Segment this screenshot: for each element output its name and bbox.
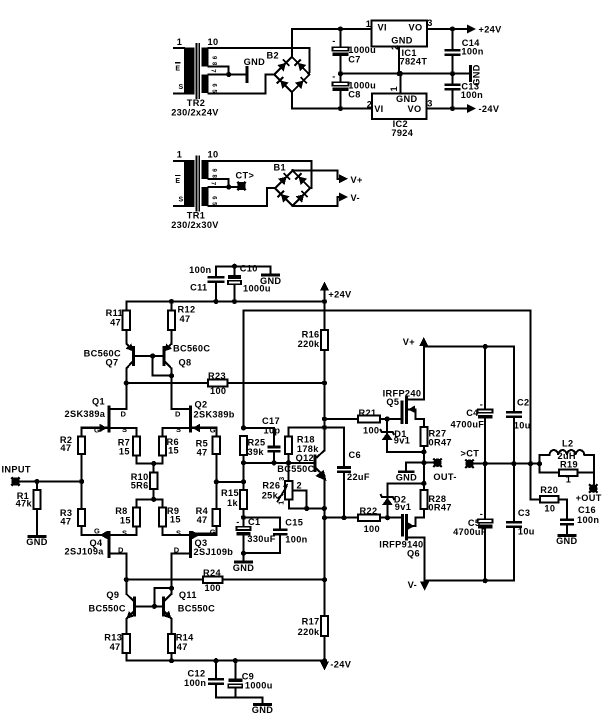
svg-text:100: 100 <box>364 524 380 534</box>
svg-text:R16: R16 <box>302 329 320 339</box>
junction R1 <box>34 479 39 484</box>
ground rail mid PSU <box>341 73 471 75</box>
wire Q4 drain down <box>125 554 127 580</box>
terminal CT <box>237 182 245 190</box>
svg-text:E: E <box>175 178 180 185</box>
bridge B1 diode upper-left <box>278 173 290 185</box>
wire output to OUT- terminal <box>424 462 433 464</box>
resistor R14 <box>168 634 175 653</box>
wire C6 bottom <box>325 473 345 517</box>
svg-text:47: 47 <box>197 448 208 458</box>
resistor R13 <box>123 634 130 653</box>
resistor R16 <box>321 330 328 350</box>
wire B2 - output to bottom rail <box>292 92 372 108</box>
resistor R15 <box>240 490 247 509</box>
svg-text:9: 9 <box>211 169 217 173</box>
svg-text:GND: GND <box>396 94 417 104</box>
transistor Q1 2SK389a <box>83 405 137 432</box>
inductor L2 <box>550 450 585 455</box>
svg-text:3: 3 <box>279 476 286 480</box>
wire R10 bottom <box>153 489 155 499</box>
svg-text:1: 1 <box>177 150 182 160</box>
svg-text:2SJ109a: 2SJ109a <box>65 547 105 557</box>
wire IC1 output to +24V <box>427 28 467 30</box>
wire Q8 collector to Q2 drain <box>171 383 173 409</box>
svg-text:15: 15 <box>119 447 130 457</box>
svg-text:9v1: 9v1 <box>394 435 410 445</box>
arrow V+ output <box>423 346 425 348</box>
wire output node to R28 <box>423 463 425 490</box>
svg-text:S: S <box>178 84 183 91</box>
wire R26 bottom <box>289 499 325 508</box>
svg-text:CT>: CT> <box>236 170 255 180</box>
wire lower mirror output row <box>126 579 324 581</box>
junction C13 bottom <box>450 106 455 111</box>
svg-text:BC550C: BC550C <box>89 604 126 614</box>
junction R26 to emitter line <box>322 506 327 511</box>
wire C16 bottom <box>566 526 568 536</box>
junction C1/C15 bottom <box>241 551 246 556</box>
svg-text:Q12: Q12 <box>296 453 314 463</box>
wire Q9/Q11 base tie <box>136 605 162 607</box>
svg-text:BC550C: BC550C <box>277 464 314 474</box>
wire R18 top lead <box>288 428 290 437</box>
wire CT line <box>474 463 540 465</box>
junction feedback/R20 <box>528 461 533 466</box>
capacitor C12 <box>208 678 224 681</box>
capacitor C7 <box>333 47 349 50</box>
svg-text:V-: V- <box>351 193 360 203</box>
junction C4 top <box>483 344 488 349</box>
feedback line top <box>244 311 531 464</box>
terminal +OUT <box>589 484 597 492</box>
junction D1 top <box>385 416 390 421</box>
trimmer R26 <box>285 481 292 499</box>
svg-text:+24V: +24V <box>479 25 503 35</box>
capacitor C17 <box>267 446 280 449</box>
ground GND C1 <box>236 561 252 564</box>
wire R17 bottom to -24V <box>324 636 326 661</box>
svg-text:10: 10 <box>208 37 219 47</box>
wire +24V to R16 <box>324 302 326 331</box>
transistor Q12 BC550C <box>315 451 331 484</box>
wire R18 bottom to Q12 base <box>288 454 290 481</box>
svg-text:R17: R17 <box>302 617 320 627</box>
transistor Q9 BC550C <box>126 594 134 619</box>
junction D1 anode to R27 line <box>421 449 426 454</box>
svg-text:C7: C7 <box>348 55 360 65</box>
junction R12 rail <box>169 299 174 304</box>
wire R17 top <box>324 580 326 616</box>
resistor R4 <box>213 509 220 526</box>
svg-text:C2: C2 <box>517 398 529 408</box>
svg-text:C16: C16 <box>578 505 596 515</box>
arrow +24V <box>467 25 476 34</box>
svg-text:-: - <box>332 72 335 82</box>
junction TR2 center tap <box>226 72 231 77</box>
terminal INPUT <box>11 477 19 485</box>
svg-text:GND: GND <box>556 536 577 546</box>
svg-text:VO: VO <box>409 23 423 33</box>
svg-text:47: 47 <box>60 443 71 453</box>
svg-text:100n: 100n <box>184 678 206 688</box>
svg-text:15: 15 <box>168 446 179 456</box>
svg-text:VI: VI <box>378 23 387 33</box>
wire emitter line to R22 node <box>323 508 325 579</box>
svg-text:15: 15 <box>120 515 131 525</box>
svg-text:R20: R20 <box>540 485 558 495</box>
svg-text:-: - <box>332 36 335 46</box>
junction C7/C8 midpoint <box>338 71 343 76</box>
svg-text:47: 47 <box>60 516 71 526</box>
svg-text:47: 47 <box>197 515 208 525</box>
wire R11 to rail <box>125 302 127 311</box>
svg-text:4700uF: 4700uF <box>451 419 485 429</box>
wire Q1 drain up <box>125 383 127 409</box>
wire R15 top <box>243 482 245 490</box>
wire R7/R6 bottoms <box>137 456 163 464</box>
transformer TR1 core <box>195 157 197 211</box>
svg-text:V+: V+ <box>351 175 363 185</box>
ground GND TR2 center tap <box>245 68 248 82</box>
resistor R25 <box>240 436 247 455</box>
svg-text:1: 1 <box>366 19 371 29</box>
wire GND stub output <box>406 463 424 472</box>
wire R25 bottom <box>243 455 245 482</box>
svg-text:7: 7 <box>210 182 216 186</box>
junction C1/C15 top <box>241 515 246 520</box>
wire C17 bottom <box>273 453 275 463</box>
junction C14 top <box>450 26 455 31</box>
wire feedback tap <box>216 481 243 483</box>
resistor R27 <box>420 427 427 446</box>
svg-text:R26: R26 <box>262 481 280 491</box>
svg-text:1k: 1k <box>227 498 238 508</box>
wire Q8 collector down <box>171 369 173 384</box>
wire R22 to Q6 gate <box>380 517 403 519</box>
negative rail bottom <box>126 653 324 661</box>
svg-text:C10: C10 <box>240 263 258 273</box>
svg-text:Q8: Q8 <box>179 357 192 367</box>
wire input <box>20 481 82 483</box>
wire Q12 collector <box>323 428 325 451</box>
svg-text:S: S <box>178 196 183 203</box>
svg-text:9v1: 9v1 <box>395 502 411 512</box>
wire TR2 pin5 to bridge B2 AC left <box>208 75 274 94</box>
arrow +24V rail <box>324 290 326 302</box>
svg-text:C11: C11 <box>190 282 207 292</box>
junction C10 top <box>232 264 237 269</box>
regulator IC1 box <box>371 20 427 46</box>
wire L2 left lead <box>540 455 550 464</box>
svg-text:INPUT: INPUT <box>2 464 31 474</box>
junction IC1 GND to rail <box>397 71 402 76</box>
junction C10 rail <box>232 299 237 304</box>
junction R10 top <box>151 461 156 466</box>
wire R5 to R4 <box>215 454 217 509</box>
wire Q5 source down <box>423 419 425 427</box>
svg-text:VO: VO <box>408 104 422 114</box>
junction C12 rail <box>213 658 218 663</box>
wire IC2 GND pin <box>399 74 401 94</box>
svg-text:Q5: Q5 <box>386 397 399 407</box>
wire to +OUT terminal <box>593 473 595 485</box>
capacitor C15 <box>273 528 287 531</box>
svg-text:1: 1 <box>389 86 399 91</box>
capacitor C3 <box>506 521 522 524</box>
svg-text:B1: B1 <box>274 162 286 172</box>
svg-text:S: S <box>122 529 127 538</box>
resistor R18 <box>285 437 292 454</box>
svg-text:2SJ109b: 2SJ109b <box>194 547 234 557</box>
wire C17 branch top <box>244 428 275 446</box>
svg-text:GND: GND <box>391 35 412 45</box>
wire TR1 pin7 to center tap <box>208 186 228 188</box>
zener diode D2 9v1 <box>386 483 388 517</box>
wire D2 top <box>387 482 424 484</box>
resistor R8 <box>133 508 140 527</box>
svg-text:D: D <box>175 410 181 419</box>
wire Q1 source to R7 <box>136 428 138 437</box>
svg-text:Q2: Q2 <box>195 399 208 409</box>
svg-text:2SK389a: 2SK389a <box>65 409 106 419</box>
junction R23 to VAS line <box>322 380 327 385</box>
junction D2 bottom <box>385 515 390 520</box>
svg-text:GND: GND <box>252 705 273 715</box>
svg-text:+24V: +24V <box>328 290 352 300</box>
ground GND PSU rail <box>469 67 472 81</box>
wire Q9 collector up <box>125 580 127 594</box>
svg-text:22uF: 22uF <box>347 472 370 482</box>
svg-text:G: G <box>94 527 100 536</box>
wire R12 to Q8 emitter <box>171 330 173 344</box>
wire R26 wiper <box>293 490 307 508</box>
resistor R6 <box>159 437 166 456</box>
svg-text:R24: R24 <box>203 568 221 578</box>
svg-text:2: 2 <box>367 100 372 110</box>
svg-text:-: - <box>480 399 483 409</box>
resistor R28 <box>420 490 427 509</box>
svg-text:2SK389b: 2SK389b <box>194 409 235 419</box>
wire R1 top <box>36 482 38 490</box>
junction R21 wire <box>322 416 327 421</box>
junction -24V rail <box>322 658 327 663</box>
svg-text:330uF: 330uF <box>247 534 275 544</box>
bridge B2 diode upper-left <box>277 59 289 71</box>
wire C15 branch top <box>244 518 281 529</box>
svg-text:3: 3 <box>427 98 432 108</box>
svg-text:4700uF: 4700uF <box>453 527 487 537</box>
wire R19 right lead <box>578 472 595 474</box>
wire R5 column top <box>191 428 217 437</box>
wire R2 to R3 <box>81 454 83 509</box>
wire R10 top <box>153 464 155 473</box>
svg-text:GND: GND <box>233 563 254 573</box>
svg-text:BC560C: BC560C <box>173 344 210 354</box>
wire R21 to Q5 gate <box>380 418 402 420</box>
capacitor C4 <box>478 410 493 413</box>
svg-text:-: - <box>236 517 239 527</box>
svg-text:6: 6 <box>211 84 217 88</box>
wire VAS to R22 junction <box>324 419 326 428</box>
svg-text:R14: R14 <box>176 632 194 642</box>
junction output node <box>421 460 426 465</box>
svg-text:>CT: >CT <box>461 449 480 459</box>
wire R8/R9 tops <box>137 499 163 507</box>
svg-text:C12: C12 <box>188 669 206 679</box>
svg-text:230/2x30V: 230/2x30V <box>171 220 219 230</box>
wire Q7 collector down <box>125 369 127 384</box>
arrow -24V rail <box>324 661 326 662</box>
svg-text:C17: C17 <box>262 416 280 426</box>
svg-text:R13: R13 <box>104 632 122 642</box>
capacitor C10 <box>228 275 241 279</box>
resistor R20 <box>540 496 559 503</box>
wire R18/C6 top row <box>289 427 345 429</box>
svg-text:C15: C15 <box>285 518 303 528</box>
svg-text:100n: 100n <box>189 265 211 275</box>
junction +24V rail <box>322 299 327 304</box>
svg-text:GND: GND <box>244 57 265 67</box>
capacitor C8 <box>333 82 349 85</box>
wire R1 bottom <box>36 509 38 536</box>
svg-text:S: S <box>122 425 127 434</box>
wire Q4 source to R8 <box>136 527 138 536</box>
svg-text:47: 47 <box>110 642 121 652</box>
capacitor C5 <box>478 519 493 522</box>
wire C6 branch <box>343 428 345 467</box>
V+ rail output stage <box>424 346 514 348</box>
wire B1 - output to V- <box>293 197 339 206</box>
wire R12 to rail <box>171 302 173 311</box>
junction R22/C6 <box>322 515 327 520</box>
svg-text:25k: 25k <box>262 491 279 501</box>
bridge B2 diode lower-left <box>277 77 289 89</box>
bridge B1 diode upper-right <box>295 173 307 185</box>
svg-text:100n: 100n <box>285 535 307 545</box>
capacitor C6 <box>337 466 351 469</box>
svg-text:D: D <box>121 410 127 419</box>
wire R2 top to Q1 gate <box>82 428 109 437</box>
wire R3 bottom to Q4 gate <box>82 526 109 535</box>
bridge B1 diode lower-left <box>278 191 290 203</box>
+24V supply rail <box>126 301 324 303</box>
svg-text:0R47: 0R47 <box>429 437 452 447</box>
capacitor C13 leads <box>452 74 454 84</box>
transistor Q8 BC560C <box>164 344 172 369</box>
wire C4 top lead <box>484 347 486 410</box>
junction Q7 collector / Q1 drain <box>124 380 129 385</box>
wire C5 top lead <box>484 464 486 520</box>
junction R14 bottom <box>169 658 174 663</box>
arrow -24V <box>467 104 476 113</box>
wire R16 bottom <box>324 350 326 419</box>
transformer TR2 secondary winding upper <box>201 48 208 67</box>
wire Q11 emitter to R14 <box>171 619 173 634</box>
wire R11 to Q7 emitter <box>125 330 127 344</box>
wire TR1 pin5 to bridge B1 AC left <box>208 188 275 206</box>
svg-text:10u: 10u <box>518 527 535 537</box>
wire IC1 GND pin <box>398 47 400 74</box>
capacitor C14 leads <box>452 29 454 49</box>
wire R27 bottom <box>423 446 425 463</box>
svg-text:7824T: 7824T <box>400 57 428 67</box>
svg-text:1: 1 <box>279 500 286 504</box>
junction TR1 center tap <box>226 184 231 189</box>
wire IC2 output to -24V <box>426 108 467 110</box>
transformer TR1 primary winding <box>184 160 195 207</box>
capacitor C9 <box>228 679 242 683</box>
ground GND bottom <box>255 703 271 706</box>
svg-text:+OUT: +OUT <box>576 493 602 503</box>
wire TR2 pin8 to center tap <box>208 66 228 74</box>
terminal CT output <box>465 460 473 468</box>
resistor R12 <box>168 310 175 330</box>
wire C2 bottom lead <box>513 418 515 464</box>
junction Q11 base-collector tie <box>169 586 174 591</box>
svg-text:V-: V- <box>408 580 417 590</box>
svg-text:0R47: 0R47 <box>428 503 451 513</box>
junction R24 to VAS line <box>322 577 327 582</box>
capacitor C16 <box>560 518 574 521</box>
junction C5 bottom <box>483 578 488 583</box>
transformer TR1 secondary winding upper <box>201 160 208 179</box>
svg-text:BC550C: BC550C <box>178 604 215 614</box>
resistor R7 <box>133 437 140 456</box>
svg-text:D: D <box>174 546 180 555</box>
capacitor C11 <box>208 276 225 279</box>
svg-text:1: 1 <box>177 37 182 47</box>
junction R10 bottom <box>151 497 156 502</box>
junction Q12 base wire <box>241 460 246 465</box>
svg-text:10: 10 <box>544 504 555 514</box>
capacitor C12 leads <box>215 661 217 678</box>
junction C17 bottom <box>271 460 276 465</box>
arrow V+ <box>339 174 348 183</box>
wire TR2 pin7 to center tap <box>208 73 228 75</box>
svg-text:7924: 7924 <box>391 128 413 138</box>
wire C3 bottom lead <box>513 528 515 581</box>
svg-text:47: 47 <box>110 317 121 327</box>
transistor Q11 BC550C <box>164 594 172 619</box>
junction C4 to CT line <box>483 461 488 466</box>
svg-text:10: 10 <box>208 150 219 160</box>
svg-text:L2: L2 <box>562 438 573 448</box>
svg-text:15: 15 <box>170 514 181 524</box>
transistor Q3 2SJ109b <box>163 531 217 558</box>
junction R5/R4 to R15 <box>214 479 219 484</box>
bridge B1 diode lower-right <box>296 191 308 203</box>
wire R4 bottom to Q3 gate <box>191 526 217 533</box>
wire R20 branch <box>531 464 540 500</box>
wire Q2 source to R6 <box>162 428 164 437</box>
terminal OUT- <box>433 459 441 467</box>
svg-text:6: 6 <box>211 196 217 200</box>
svg-text:1000u: 1000u <box>245 681 273 691</box>
wire R22 row <box>325 517 359 519</box>
ground GND C10 <box>263 274 279 277</box>
capacitor C1 <box>237 527 251 530</box>
svg-text:Q7: Q7 <box>106 357 119 367</box>
svg-text:100n: 100n <box>461 90 483 100</box>
resistor R5 <box>213 437 220 454</box>
svg-text:7: 7 <box>210 69 216 73</box>
wire C2 top lead <box>513 347 515 412</box>
junction Q12 collector node <box>322 425 327 430</box>
wire center tap to CT terminal <box>229 186 237 188</box>
V- rail output stage <box>425 580 514 582</box>
mosfet Q5 IRFP240 <box>402 347 424 424</box>
